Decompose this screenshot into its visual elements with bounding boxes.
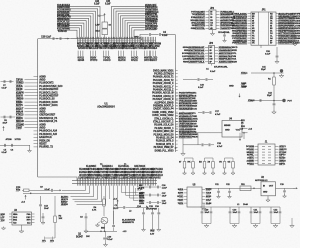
- svg-text:P0.1/AD1_ADC9_T2: P0.1/AD1_ADC9_T2: [153, 79, 174, 82]
- svg-text:70: 70: [210, 14, 212, 16]
- svg-text:AGND: AGND: [39, 107, 46, 110]
- svg-text:AGND: AGND: [39, 75, 46, 78]
- svg-text:DAC1/ADC13_P4: DAC1/ADC13_P4: [39, 120, 58, 123]
- svg-text:ERVN0XME3: ERVN0XME3: [144, 48, 158, 50]
- svg-text:ADuC841BS62-5: ADuC841BS62-5: [97, 106, 115, 109]
- svg-text:0PE1K: 0PE1K: [131, 60, 138, 62]
- svg-text:P1.4/ADC4/EXTRF: P1.4/ADC4/EXTRF: [39, 95, 59, 98]
- svg-text:ATCFXPSR: ATCFXPSR: [146, 207, 157, 210]
- svg-text:RESET: RESET: [39, 144, 47, 146]
- svg-text:P2.7/A15_PWM_D7: P2.7/A15_PWM_D7: [154, 146, 175, 149]
- svg-text:89: 89: [210, 50, 212, 52]
- svg-text:10K: 10K: [59, 218, 63, 220]
- svg-text:P1.7/ADC7_DAC1: P1.7/ADC7_DAC1: [39, 104, 58, 107]
- svg-text:P2.2/A10_MISO_D2: P2.2/A10_MISO_D2: [153, 130, 174, 133]
- svg-text:POT: POT: [288, 101, 293, 103]
- svg-text:4.7uF: 4.7uF: [217, 145, 223, 148]
- svg-text:P0.5/AD5_ADC13_W: P0.5/AD5_ADC13_W: [152, 92, 174, 95]
- svg-text:0AC8G: 0AC8G: [131, 57, 139, 60]
- svg-text:1.5uF: 1.5uF: [162, 188, 168, 190]
- svg-text:0.1uF: 0.1uF: [45, 189, 51, 191]
- svg-text:P1.3/ADC3_DAC1: P1.3/ADC3_DAC1: [39, 91, 58, 94]
- svg-text:GND: GND: [263, 192, 268, 194]
- svg-text:NBA: NBA: [13, 213, 18, 216]
- svg-text:DVDD_CORE_VDD2: DVDD_CORE_VDD2: [152, 115, 174, 117]
- svg-text:GND: GND: [225, 130, 230, 132]
- svg-text:P2.5/A13_INT0_5: P2.5/A13_INT0_5: [156, 140, 174, 143]
- svg-text:XTAL2_OSCOUT_C: XTAL2_OSCOUT_C: [153, 121, 174, 124]
- svg-text:AVDD: AVDD: [39, 111, 46, 114]
- svg-text:0.1uF: 0.1uF: [105, 4, 111, 6]
- svg-text:22pF: 22pF: [261, 69, 267, 71]
- svg-text:F4A: F4A: [27, 213, 31, 216]
- svg-text:0.1uF: 0.1uF: [162, 35, 168, 37]
- svg-text:PPPPD: PPPPD: [90, 60, 98, 62]
- svg-text:PSEN_EN: PSEN_EN: [39, 140, 50, 142]
- svg-text:10uF: 10uF: [205, 212, 210, 214]
- svg-text:4BS98: 4BS98: [78, 59, 85, 62]
- svg-text:1C72D: 1C72D: [15, 139, 22, 141]
- svg-text:1H2E8H14: 1H2E8H14: [102, 165, 113, 168]
- svg-text:P1.5/ADC5_SS: P1.5/ADC5_SS: [39, 98, 55, 101]
- svg-text:P2.1/A9_SDATA_1: P2.1/A9_SDATA_1: [155, 127, 175, 130]
- svg-text:4E9A9H82: 4E9A9H82: [150, 176, 161, 179]
- svg-text:10uF: 10uF: [162, 203, 167, 205]
- svg-text:0.1uF: 0.1uF: [210, 71, 216, 73]
- svg-text:C23 0.1uF: C23 0.1uF: [41, 37, 52, 39]
- svg-text:9EXTVHXH: 9EXTVHXH: [151, 169, 163, 171]
- svg-text:M0BDA: M0BDA: [118, 57, 126, 60]
- svg-text:DVDD_MAIN_VDD1: DVDD_MAIN_VDD1: [153, 69, 174, 72]
- svg-text:GND: GND: [229, 86, 234, 88]
- svg-text:KL22689F: KL22689F: [86, 166, 97, 168]
- svg-text:0.1uF: 0.1uF: [108, 239, 114, 241]
- svg-text:P1.1/ADC1/T2EX_DAC: P1.1/ADC1/T2EX_DAC: [39, 85, 63, 88]
- svg-text:G2MPXC5TRL: G2MPXC5TRL: [191, 28, 206, 30]
- svg-text:4M4KT: 4M4KT: [150, 59, 158, 62]
- svg-text:P2.0/A8_SCLK_D0: P2.0/A8_SCLK_D0: [154, 124, 174, 127]
- svg-text:P0.6/AD6_ADC14_Q: P0.6/AD6_ADC14_Q: [152, 95, 173, 98]
- svg-text:CREF/DACREF: CREF/DACREF: [39, 114, 56, 117]
- svg-text:AGND: AGND: [39, 123, 46, 126]
- svg-text:P4.7/ADC15_A15: P4.7/ADC15_A15: [39, 133, 57, 136]
- svg-text:4.7uF: 4.7uF: [215, 113, 221, 116]
- svg-text:10uF: 10uF: [3, 123, 8, 125]
- svg-text:ARE720AK: ARE720AK: [134, 165, 146, 168]
- svg-text:EA/EXTCLK: EA/EXTCLK: [39, 136, 52, 139]
- svg-text:B6: B6: [210, 56, 212, 58]
- svg-text:0.1uF: 0.1uF: [265, 54, 271, 56]
- svg-text:10K: 10K: [86, 236, 90, 238]
- svg-text:P0.0/AD0_ADC8_T1: P0.0/AD0_ADC8_T1: [153, 76, 174, 79]
- svg-text:HH88NRF75: HH88NRF75: [122, 222, 135, 224]
- svg-text:P4.6/ADC14_A14: P4.6/ADC14_A14: [39, 130, 57, 133]
- svg-text:P0.2/AD2_ADC10_X: P0.2/AD2_ADC10_X: [153, 82, 174, 85]
- svg-text:3.3V: 3.3V: [150, 233, 155, 235]
- svg-text:AVDD: AVDD: [39, 79, 46, 82]
- svg-text:CGSFD: CGSFD: [103, 60, 111, 62]
- svg-text:P2.4/A12_SS_D4: P2.4/A12_SS_D4: [156, 137, 174, 140]
- svg-text:S7LMVKC3RL: S7LMVKC3RL: [214, 67, 228, 69]
- svg-text:VDD: VDD: [150, 231, 155, 233]
- svg-text:DM: DM: [210, 59, 213, 61]
- svg-text:10uF: 10uF: [274, 212, 279, 214]
- svg-text:10uF: 10uF: [233, 212, 238, 214]
- svg-text:SENSE: SENSE: [224, 125, 231, 127]
- svg-text:10uF: 10uF: [162, 196, 167, 198]
- svg-text:10uF: 10uF: [44, 208, 50, 210]
- svg-text:10uH: 10uH: [243, 204, 248, 206]
- svg-text:P1.6/ADC6_DAC0: P1.6/ADC6_DAC0: [39, 101, 58, 104]
- svg-text:P0.3/AD3_ADC11_Y: P0.3/AD3_ADC11_Y: [153, 85, 174, 88]
- svg-text:0.1uF: 0.1uF: [94, 4, 100, 6]
- svg-text:AT1N6: AT1N6: [6, 138, 13, 141]
- svg-text:P3.0/RXD_T2: P3.0/RXD_T2: [39, 147, 53, 149]
- svg-text:PSEN/EN_BOOTLD: PSEN/EN_BOOTLD: [153, 106, 174, 108]
- svg-text:BC847: BC847: [76, 235, 84, 238]
- svg-text:P1.0/ADC0/T2: P1.0/ADC0/T2: [39, 82, 54, 85]
- svg-text:EA/EXT_VDDIO_P4: EA/EXT_VDDIO_P4: [153, 108, 174, 111]
- svg-text:M1H0BU3RHU: M1H0BU3RHU: [190, 20, 205, 22]
- svg-text:99: 99: [210, 12, 212, 14]
- svg-text:GND: GND: [134, 36, 139, 38]
- svg-text:DGND_CORE_VSS2: DGND_CORE_VSS2: [152, 112, 174, 114]
- svg-text:0.1uF: 0.1uF: [2, 87, 8, 89]
- svg-text:0.1uF: 0.1uF: [2, 152, 8, 154]
- svg-text:DAC0/ADC12_P4: DAC0/ADC12_P4: [39, 117, 58, 120]
- svg-text:P1.2/ADC2/EXTRF: P1.2/ADC2/EXTRF: [39, 88, 59, 91]
- svg-text:LGF62VD9: LGF62VD9: [151, 172, 163, 174]
- svg-text:4.7K: 4.7K: [92, 209, 97, 212]
- svg-text:VLKC: VLKC: [113, 208, 119, 210]
- svg-text:10uF: 10uF: [254, 212, 259, 214]
- svg-text:95: 95: [210, 17, 212, 19]
- svg-text:P3.7/RD_EXTAD14: P3.7/RD_EXTAD14: [154, 73, 174, 76]
- svg-text:AVDD: AVDD: [39, 127, 46, 130]
- svg-text:K8C: K8C: [26, 217, 31, 219]
- svg-text:K7FB: K7FB: [139, 188, 145, 190]
- svg-text:L8XN: L8XN: [139, 203, 145, 205]
- svg-text:CKGAEVML: CKGAEVML: [218, 31, 231, 34]
- svg-text:P2.6/A14_INT1_6: P2.6/A14_INT1_6: [156, 143, 174, 146]
- svg-text:KU5FUD: KU5FUD: [58, 31, 67, 33]
- svg-text:DGND_PLL_VSS3: DGND_PLL_VSS3: [155, 150, 175, 152]
- svg-text:0.1uF: 0.1uF: [198, 87, 204, 89]
- svg-text:22pF: 22pF: [267, 95, 273, 97]
- svg-text:XTAL1_OSCIN_CL: XTAL1_OSCIN_CL: [154, 117, 174, 120]
- svg-text:P0.7/AD7_ADC15_R: P0.7/AD7_ADC15_R: [153, 98, 174, 101]
- svg-text:P0.4/AD4_ADC12_Z: P0.4/AD4_ADC12_Z: [153, 89, 174, 92]
- svg-text:ALE/PROG_ENAB: ALE/PROG_ENAB: [154, 101, 174, 104]
- svg-text:XEVDN: XEVDN: [118, 60, 126, 62]
- svg-text:P2.3/A11_MOSI_D3: P2.3/A11_MOSI_D3: [153, 133, 174, 136]
- svg-text:RK: RK: [188, 162, 191, 164]
